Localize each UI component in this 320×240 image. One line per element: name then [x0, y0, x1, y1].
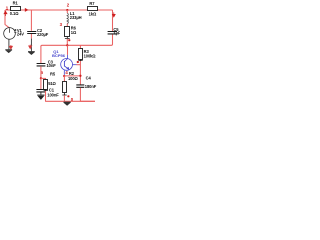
R2 bottom pin dot	[67, 95, 69, 97]
svg-text:C4: C4	[86, 75, 92, 80]
wire node5 to R5	[41, 78, 46, 79]
R2 bottom pin tick	[62, 93, 66, 96]
ground under V1	[5, 50, 12, 53]
wire V1 bottom lead	[8, 39, 10, 49]
R6 bottom pin tick	[65, 37, 70, 39]
ground under C2	[28, 52, 35, 55]
R3 bottom pin dot	[77, 61, 79, 63]
junction node5 dot	[40, 77, 42, 79]
wire base column	[79, 61, 81, 85]
wire top rail	[5, 9, 113, 11]
svg-text:2: 2	[67, 2, 70, 7]
junction emitter dot	[63, 75, 65, 77]
capacitor C2	[27, 28, 49, 37]
resistor R1	[10, 1, 21, 17]
ground under C1	[37, 95, 44, 99]
wire C4 to bottom rail	[80, 88, 95, 102]
wire below C1	[40, 92, 42, 95]
svg-text:R5: R5	[50, 71, 56, 76]
svg-text:180nF: 180nF	[85, 84, 97, 89]
junction node2 dot	[66, 9, 68, 11]
wire below C2	[30, 34, 32, 39]
resistor R6	[65, 25, 77, 36]
capacitor C5	[108, 27, 121, 35]
svg-text:220µF: 220µF	[37, 32, 49, 37]
current arrow down at top right	[112, 12, 115, 17]
voltage source V1	[4, 28, 25, 40]
svg-text:10nF: 10nF	[47, 63, 57, 68]
svg-text:100nF: 100nF	[47, 92, 59, 97]
svg-text:R7: R7	[89, 1, 95, 6]
wire R5 bottom to bottom rail	[44, 90, 48, 92]
current arrow right after R1	[25, 9, 28, 12]
svg-text:100kΩ: 100kΩ	[84, 54, 97, 59]
wire collector drop	[67, 45, 69, 55]
svg-text:51Ω: 51Ω	[48, 81, 56, 86]
wire L1 to R6	[66, 24, 68, 27]
svg-text:24V: 24V	[17, 31, 24, 36]
wire node2 to L1	[66, 10, 68, 13]
wire right drop	[112, 10, 114, 31]
wire C1 top	[40, 78, 42, 89]
capacitor C1	[36, 88, 59, 98]
junction mid rail at R6 column	[66, 44, 68, 46]
wire C5 to mid rail	[41, 35, 113, 47]
svg-text:1Ω: 1Ω	[71, 30, 77, 35]
svg-text:0.1Ω: 0.1Ω	[10, 11, 19, 16]
current arrow down at V1 ground	[9, 45, 12, 49]
svg-text:1kΩ: 1kΩ	[89, 11, 97, 16]
current arrow down at C2	[29, 45, 32, 49]
capacitor C4	[76, 75, 96, 88]
resistor R2	[63, 71, 79, 92]
svg-text:100Ω: 100Ω	[68, 76, 79, 81]
svg-text:1µF: 1µF	[113, 30, 120, 35]
wire base lead red part	[76, 64, 80, 66]
R6 bottom pin dot	[68, 39, 70, 41]
svg-text:BCP56: BCP56	[52, 53, 66, 58]
transistor Q1 labels	[52, 49, 66, 58]
wire left drop to V1	[5, 10, 9, 28]
wire C2 drop	[30, 10, 32, 31]
svg-text:3: 3	[60, 22, 63, 27]
transistor Q1	[61, 55, 77, 75]
resistor R3	[79, 45, 97, 59]
wire emitter horizontal	[64, 75, 80, 77]
wire C3 column	[40, 46, 42, 63]
junction base column dot	[79, 75, 81, 77]
wire below C3	[40, 66, 42, 78]
ground on bottom rail	[64, 102, 71, 105]
resistor R5	[44, 71, 57, 89]
capacitor C3	[37, 59, 57, 68]
inductor L1	[67, 11, 81, 24]
resistor R7	[88, 1, 98, 16]
wire R2 to bottom rail	[63, 95, 65, 101]
svg-text:R1: R1	[13, 1, 19, 6]
svg-text:233µH: 233µH	[70, 15, 82, 20]
R3 bottom pin tick	[78, 60, 82, 62]
wire R6 to mid rail	[66, 39, 68, 46]
current arrow up on left wire	[4, 11, 7, 16]
